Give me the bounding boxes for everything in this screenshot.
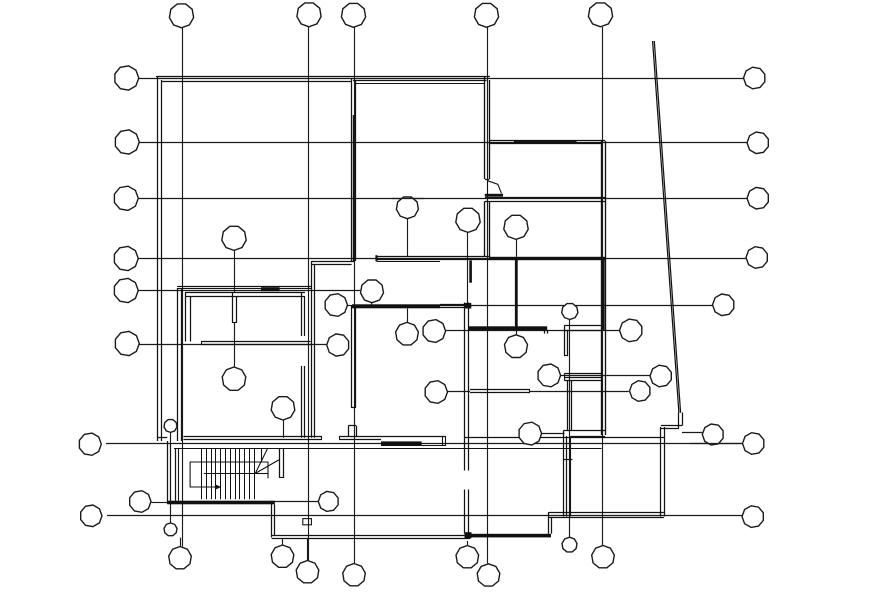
grid marker left 3 (114, 186, 138, 210)
wall top inner face y=80 middle section (353, 80, 487, 82)
bottom wall line y=538.6 x272-470 (272, 538, 471, 540)
band lower line y=445.8 x381-446 (381, 445, 446, 447)
thick wall y=306 x352-440 (352, 304, 440, 308)
inner marker (468,220) (456, 208, 480, 232)
band cap x=339 (339, 436, 341, 439)
small marker (170,426) (164, 420, 177, 433)
thick wall y=258 x489-605 (489, 257, 605, 260)
wall y=377 x564-601 (564, 377, 601, 379)
grid marker bottom 7 (592, 546, 615, 568)
stem marker (372,291) down (371, 303, 373, 305)
wall end cap at x=376.6 y=255-261 (375, 255, 377, 261)
inner marker (407,208) (396, 197, 418, 219)
stair right wall x=283.4 y448-478 (283, 448, 285, 478)
wall right x=603 darker core y258-330 (602, 258, 604, 330)
grid line 6 horizontal y=344 (139, 344, 326, 346)
slant boundary line inner (654, 41, 680, 413)
grid marker top 4 (474, 3, 498, 27)
bottom wall line y=535 x272-470 (272, 535, 471, 537)
wall y=512.2 x548-664 (549, 512, 664, 514)
band wall y=439.7 x339-381 (339, 439, 381, 441)
inner marker (328,501) (318, 491, 338, 511)
step wall x=551 y517-533 (551, 518, 553, 534)
small box symbol at x=303 y=518 (303, 519, 312, 525)
stem marker (407,208) down (407, 219, 409, 257)
stem marker (516,346) up (516, 330, 518, 334)
grid marker left 8 (130, 491, 151, 513)
grid line y=198 over marker (407,208) (392, 198, 424, 200)
window band line y=288 (177, 288, 311, 290)
stem marker (336,305) right (348, 305, 353, 307)
T-stub top cap (348, 425, 356, 427)
bottom thick wall y=534-537 x467-551 (467, 534, 551, 538)
line x=170.7 between small markers at staircase (170, 432, 172, 523)
band cap x=442.6 (442, 436, 444, 445)
wall y=256.6 x376-489 (377, 256, 490, 258)
grid line 4 horizontal y=258 (138, 258, 746, 260)
grid line 7 horizontal y=305 (352, 305, 713, 307)
wall x=567.3 y381-430 (567, 381, 569, 431)
grid marker bottom 3 (296, 561, 319, 583)
wall x=351.6 lower segment left face (351, 306, 353, 408)
band wall y=436.4 x339-446 (339, 436, 446, 438)
wall top second inner line y=83 middle room (356, 83, 486, 85)
room right wall x=301 lower (301, 366, 303, 438)
staircase treads (201, 448, 203, 499)
wall x=485 outer face upper (484, 76, 486, 179)
step wall x=548.6 y512-533 (548, 512, 550, 534)
winder diagonal 1 (255, 449, 267, 473)
small marker (570,311) (562, 304, 578, 320)
wall y=428.6 x661-679 (661, 428, 679, 430)
grid line y=444 over marker (713,434) (690, 443, 743, 445)
stem marker (140,501) right (152, 502, 168, 504)
wall x=355.2 lower segment right face (355, 306, 357, 408)
door leaf line (487, 181, 489, 194)
wall y=344.8 x202-310 (202, 344, 311, 346)
stair right wall x=279.8 y448-478 (279, 448, 281, 478)
wall x=351.6 upper left face (351, 78, 353, 261)
wall x=678.9 y412-428 (678, 413, 680, 429)
wall y=436.1 x570-605 (571, 436, 606, 438)
grid marker bottom 4 (343, 564, 366, 586)
band wall y=439.7 x183-322 (184, 439, 323, 441)
room divider stub x=232.2 (232, 292, 234, 323)
grid line 3 horizontal y=198 (138, 198, 747, 200)
wall x=664.4 y427-516 (664, 427, 666, 517)
stem marker (516,227) down (516, 239, 518, 256)
wall y=307.9 x440-465 (440, 307, 465, 309)
grid marker left 6 (115, 331, 139, 355)
wall x=181.4 y288-441 (181, 288, 183, 441)
stair bottom thick wall y=501-504 x167-274 (167, 501, 274, 505)
stair walk line (190, 462, 268, 487)
wall y=341 end cap (201, 341, 203, 345)
stem marker (407,334) up (407, 308, 409, 322)
grid marker right 2 (747, 132, 768, 154)
grid line B vertical x=308 (308, 27, 310, 561)
hook down x=544.6 (544, 330, 546, 334)
wall x=464.8 y489-533 (464, 490, 466, 534)
grid marker left 1 (115, 66, 139, 90)
wall y=201.3 x485-605 (485, 201, 605, 203)
wall right x=605.1 y141-435 (605, 141, 607, 435)
wall x=468.6 y302-470 (468, 303, 470, 471)
wall x=566.9 y436-516 (566, 436, 568, 516)
grid line 2 horizontal y=142 (140, 142, 748, 144)
wall y=392.6 x470-530 (470, 392, 530, 394)
wall x=352 lower segment end cap (352, 407, 356, 409)
wall x=564-568 end cap (564, 355, 568, 357)
grid marker bottom 5 (456, 546, 479, 568)
stair right wall end cap (280, 477, 284, 479)
thick wall y=328 x468-547 (469, 326, 548, 330)
line x=570 between small markers (569, 319, 571, 537)
wall x=567.9 y330-356 (567, 330, 569, 356)
wall y=380.8 x564-601 (564, 380, 601, 382)
stem marker (307,572) up (307, 539, 309, 561)
inner marker (336,305) (325, 294, 347, 317)
wall lower line y=261.2 x376-440 (377, 261, 440, 263)
winder diagonal 2 (255, 460, 279, 474)
line y=391 marker (436,392) to wall (448, 391, 470, 393)
grid line C vertical x=354 (354, 28, 356, 564)
T-stub x=356 y425-436 (356, 426, 358, 437)
wall x=489.3 lower segment inner (489, 201, 491, 257)
wall y=390 end cap (529, 390, 531, 393)
wall y=197.2 x485-605 (485, 197, 605, 199)
grid marker bottom 1 (169, 547, 192, 569)
grid marker left 9 (81, 505, 102, 527)
inner marker (713,434) (702, 424, 723, 445)
stair outer left wall x=170.2 (170, 444, 172, 504)
wall x=274.9 y504-535 (274, 504, 276, 535)
grid marker right 6 (743, 433, 764, 455)
wall right x=601.6 y141-435 (601, 141, 603, 435)
room left wall inner x=190.2 (190, 296, 192, 342)
wall junction block x465-471 y303-308 (465, 303, 472, 309)
grid marker top 2 (297, 3, 321, 27)
grid marker top 1 (169, 4, 193, 28)
grid marker right 7 (742, 506, 763, 528)
stair inner left wall x=175.6 (175, 448, 177, 500)
winder center to right (255, 473, 268, 475)
grid line D vertical x=487 (487, 28, 489, 564)
wall x=660.9 y427-516 (660, 427, 662, 517)
grid marker right 1 (744, 67, 765, 89)
inner line y=448.4 x174-601 (174, 448, 602, 450)
wall y=325.5 x564-601 (564, 325, 601, 327)
inner marker (234,238) (222, 226, 246, 250)
stem marker (328,501) left (275, 501, 319, 503)
wall top outer face y=76 (156, 76, 490, 78)
wall x=682.3 y412-425 (682, 413, 684, 426)
line y=391 wall to marker (640,391) (530, 391, 629, 393)
room divider stub x=236.4 (236, 296, 238, 323)
room left wall x=185.3 (185, 292, 187, 341)
wall y=330.2 x564-601 (564, 330, 601, 332)
grid marker bottom 6 (477, 564, 500, 586)
room right wall x=301 upper (301, 292, 303, 336)
wall x=489.3 inner face upper (489, 80, 491, 179)
wall y=341 x202-310 (202, 341, 311, 343)
wall y=264.3 x311-351 (311, 264, 351, 266)
wall y=517.7 x548-664 (549, 517, 664, 519)
grid marker left 4 (114, 246, 138, 270)
window thick bar x381-421 y441-446 (381, 441, 422, 445)
wall top inner face y=81.8 left section (161, 81, 352, 83)
grid marker left 2 (115, 130, 139, 154)
inner marker (436,392) (425, 381, 447, 404)
inner marker (372,291) (361, 280, 384, 303)
room right wall x=304.8 upper (304, 296, 306, 336)
inner marker (234,379) (222, 367, 246, 390)
wall x=468.6 y489-533 (468, 490, 470, 534)
stair walk line middle leg y=473.4 (204, 473, 256, 475)
inner marker (516,227) (504, 215, 528, 239)
wall y=140.4 x489-605 (489, 140, 605, 142)
wall x=515-517.5 y258-330 (515, 258, 518, 330)
wall y=373.4 x564-601 (564, 373, 601, 375)
band cap x=322 (321, 436, 323, 439)
divider stub end cap (232, 322, 236, 324)
thick stub x=470 y260-282 (469, 260, 472, 282)
wall x=563.4 y430-516 (563, 431, 565, 517)
line y=330 between markers (434,331)-(631,330) (446, 330, 620, 332)
room top wall y=292.4 x185-305 (185, 292, 305, 294)
stem marker (468,220) down (467, 232, 469, 304)
stem between stub wall and marker (234,379) (234, 323, 236, 367)
room top wall inner y=296 x185-305 (185, 296, 305, 298)
wall y=304.5 x440-465 (440, 304, 465, 306)
wall corner y=437.6 x157-167 (158, 437, 168, 439)
small marker (170,529) (164, 523, 177, 536)
inner marker (640,391) (630, 381, 650, 402)
stem marker x=234 to wall (234, 251, 236, 293)
inner marker (407,334) (396, 322, 419, 345)
inner marker (434,331) (423, 320, 446, 343)
wall y=259.6 x376-489 (377, 259, 490, 261)
stem marker (283,408) down (283, 420, 285, 438)
window wall thick bar y=141 x514-576 (514, 140, 577, 143)
grid line A vertical x=182 (182, 28, 184, 547)
grid line 9 horizontal y=516 (107, 515, 742, 517)
inner marker (631,330) (620, 319, 642, 342)
inner marker (516,346) (505, 335, 528, 358)
inner marker (338,345) (327, 334, 349, 356)
wall band left cap x=564.4 (564, 373, 566, 380)
grid marker left 5 (114, 278, 138, 302)
wall x=570.6 y436-516 (570, 436, 572, 516)
grid line 8 horizontal y=444 (106, 443, 743, 445)
walk line arrow head (215, 484, 222, 490)
hook down x=547.3 (547, 330, 549, 334)
wall x=314.8 y261-438 (314, 264, 316, 438)
stem marker (282,556) up (282, 539, 284, 545)
stair outer left wall x=167.3 (167, 441, 169, 504)
stair winder tread x=261 (261, 448, 263, 462)
wall x=355.2 upper right face (355, 80, 357, 261)
slant boundary line outer (653, 41, 679, 413)
wall x=485 door jamb cap (485, 179, 489, 181)
wall x=564.4 y325-356 (564, 326, 566, 357)
inner marker (549,375) (538, 364, 561, 387)
door threshold thick bar x485-503 (485, 194, 503, 197)
grid marker right 5 (713, 294, 734, 316)
wall left inner face x=161 (161, 80, 163, 441)
grid line 1 horizontal y=78 (139, 78, 744, 80)
stem marker (530,433) right (542, 433, 565, 435)
grid marker right 3 (747, 187, 768, 209)
wall x=485 lower segment outer (484, 201, 486, 257)
wall x=571 y381-430 (571, 381, 573, 431)
inner marker (661,376) (650, 365, 671, 387)
band wall y=437.8 x464-664 (465, 437, 664, 439)
door swing arc (488, 181, 502, 194)
small marker (569,545) (562, 537, 577, 552)
window band outer line y=286.2 (177, 286, 311, 288)
band cap x=445.9 (445, 436, 447, 445)
grid marker bottom 2 (271, 545, 294, 567)
grid marker right 4 (746, 247, 767, 269)
wall y=143.2 x489-601 (489, 143, 601, 145)
grid line 5 horizontal y=290 (139, 290, 361, 292)
grid line E vertical x=602 (602, 27, 604, 545)
stem marker (713,434) left (682, 432, 702, 434)
wall junction blob x465-471 y532-538 (465, 532, 472, 538)
inner marker (283,408) (271, 397, 295, 420)
grid marker top 3 (341, 3, 365, 27)
wall x=311.3 y261-438 (311, 261, 313, 438)
T-stub x=348.3 y425-436 (348, 426, 350, 437)
line y=375 between markers (549,375)-(661,376) (561, 375, 651, 377)
window thick bar x261-279 y287-291 (261, 287, 280, 291)
wall left outer face x=157.5 (157, 76, 159, 441)
stem marker (467,557) up (467, 541, 469, 545)
wall y=389.5 x470-530 (470, 389, 530, 391)
wall x=177.6 y288-441 (177, 288, 179, 441)
wall junction tick y=459.6 x563-572 (563, 459, 573, 461)
wall x=464.8 y302-470 (464, 303, 466, 471)
wall y=261 x311-355 (311, 261, 355, 263)
grid marker top 5 (588, 3, 612, 27)
wall x=353 darker core below y=115 (353, 115, 355, 261)
stair inner left wall x=178.6 (178, 448, 180, 500)
stem marker (180,558) up (180, 538, 182, 547)
grid marker left 7 (79, 433, 101, 455)
inner marker (530,433) (519, 422, 542, 445)
wall y=430.6 x563-605 (563, 430, 605, 432)
wall x=271.6 y500-537 (271, 501, 273, 538)
band wall y=436.4 x183-322 (184, 436, 323, 438)
room right wall x=304.8 lower (304, 366, 306, 438)
wall y=425.4 x661-682 (661, 425, 683, 427)
